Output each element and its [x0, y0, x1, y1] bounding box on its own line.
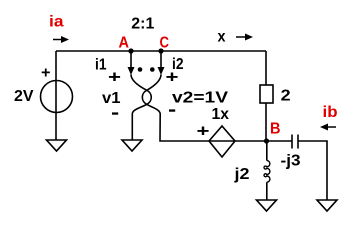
svg-text:2V: 2V: [14, 88, 34, 105]
svg-text:2: 2: [281, 88, 291, 105]
svg-text:C: C: [160, 35, 170, 52]
svg-text:x: x: [218, 29, 226, 46]
svg-text:v2=1V: v2=1V: [172, 90, 228, 107]
svg-text:ib: ib: [323, 104, 338, 121]
svg-text:+: +: [41, 65, 51, 82]
svg-text:-j3: -j3: [281, 153, 301, 170]
svg-text:2:1: 2:1: [131, 16, 154, 33]
svg-text:v1: v1: [102, 90, 121, 107]
svg-text:ia: ia: [49, 14, 64, 31]
svg-text:1x: 1x: [212, 106, 230, 123]
svg-text:+: +: [166, 68, 179, 87]
svg-text:j2: j2: [233, 166, 249, 183]
svg-text:i1: i1: [95, 57, 107, 74]
svg-text:+: +: [197, 122, 210, 141]
svg-text:B: B: [270, 121, 281, 138]
svg-text:A: A: [119, 35, 130, 52]
svg-text:+: +: [108, 68, 121, 87]
